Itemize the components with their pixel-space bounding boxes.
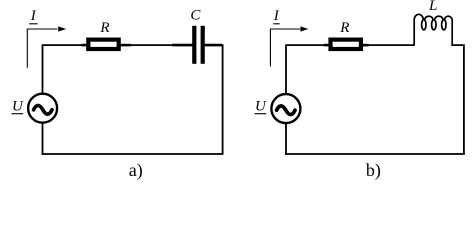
svg-text:U: U [255, 99, 267, 115]
resistor R (circuit b) [331, 40, 361, 49]
current direction arrow (circuit a) [27, 29, 57, 68]
current direction arrow (circuit b) [270, 29, 300, 67]
svg-text:R: R [99, 20, 109, 36]
wire: source bottom to bottom-left corner [42, 124, 44, 155]
svg-text:U: U [12, 99, 24, 115]
wire: capacitor right plate to top-right corner and down [205, 45, 223, 154]
wire: resistor to inductor riser (circuit b) [363, 44, 414, 46]
arrowhead (circuit a) [58, 26, 66, 31]
resistor lead stubs (circuit a) [82, 44, 88, 47]
wire: top-left segment from corner to resistor [43, 45, 87, 93]
AC source circle (circuit b) [271, 94, 300, 123]
underline of U (circuit a) [12, 113, 24, 115]
wire: source bottom to bottom-left corner (circuit b) [285, 124, 287, 155]
underline of U (circuit b) [255, 113, 267, 115]
AC source circle (circuit a) [28, 94, 57, 123]
capacitor C left plate [192, 26, 196, 64]
sine wave inside source (circuit b) [277, 106, 295, 115]
wire: bottom return (circuit b) [285, 153, 465, 155]
svg-text:C: C [190, 7, 201, 23]
svg-text:R: R [339, 20, 349, 36]
svg-text:b): b) [366, 160, 381, 181]
capacitor lead (thicker) left [172, 44, 192, 47]
resistor R (circuit a) [88, 40, 118, 49]
wire: resistor to capacitor [121, 44, 193, 46]
capacitor C right plate [201, 26, 205, 64]
underline of I (circuit b) [273, 23, 279, 25]
wire: inductor to top-right corner and down (circuit b) [451, 45, 464, 154]
svg-text:a): a) [129, 160, 143, 181]
capacitor lead (thicker) right [205, 44, 222, 47]
underline of I (circuit a) [29, 23, 37, 25]
inductor L coil [414, 14, 452, 45]
svg-text:I: I [30, 8, 37, 24]
resistor lead stubs (circuit b) [324, 44, 330, 47]
wire: top-left segment from corner to resistor (circuit b) [286, 45, 329, 93]
svg-text:I: I [273, 8, 280, 24]
sine wave inside source (circuit a) [34, 105, 52, 114]
arrowhead (circuit b) [300, 26, 308, 31]
wire: bottom return [42, 153, 224, 155]
svg-text:L: L [428, 0, 437, 14]
